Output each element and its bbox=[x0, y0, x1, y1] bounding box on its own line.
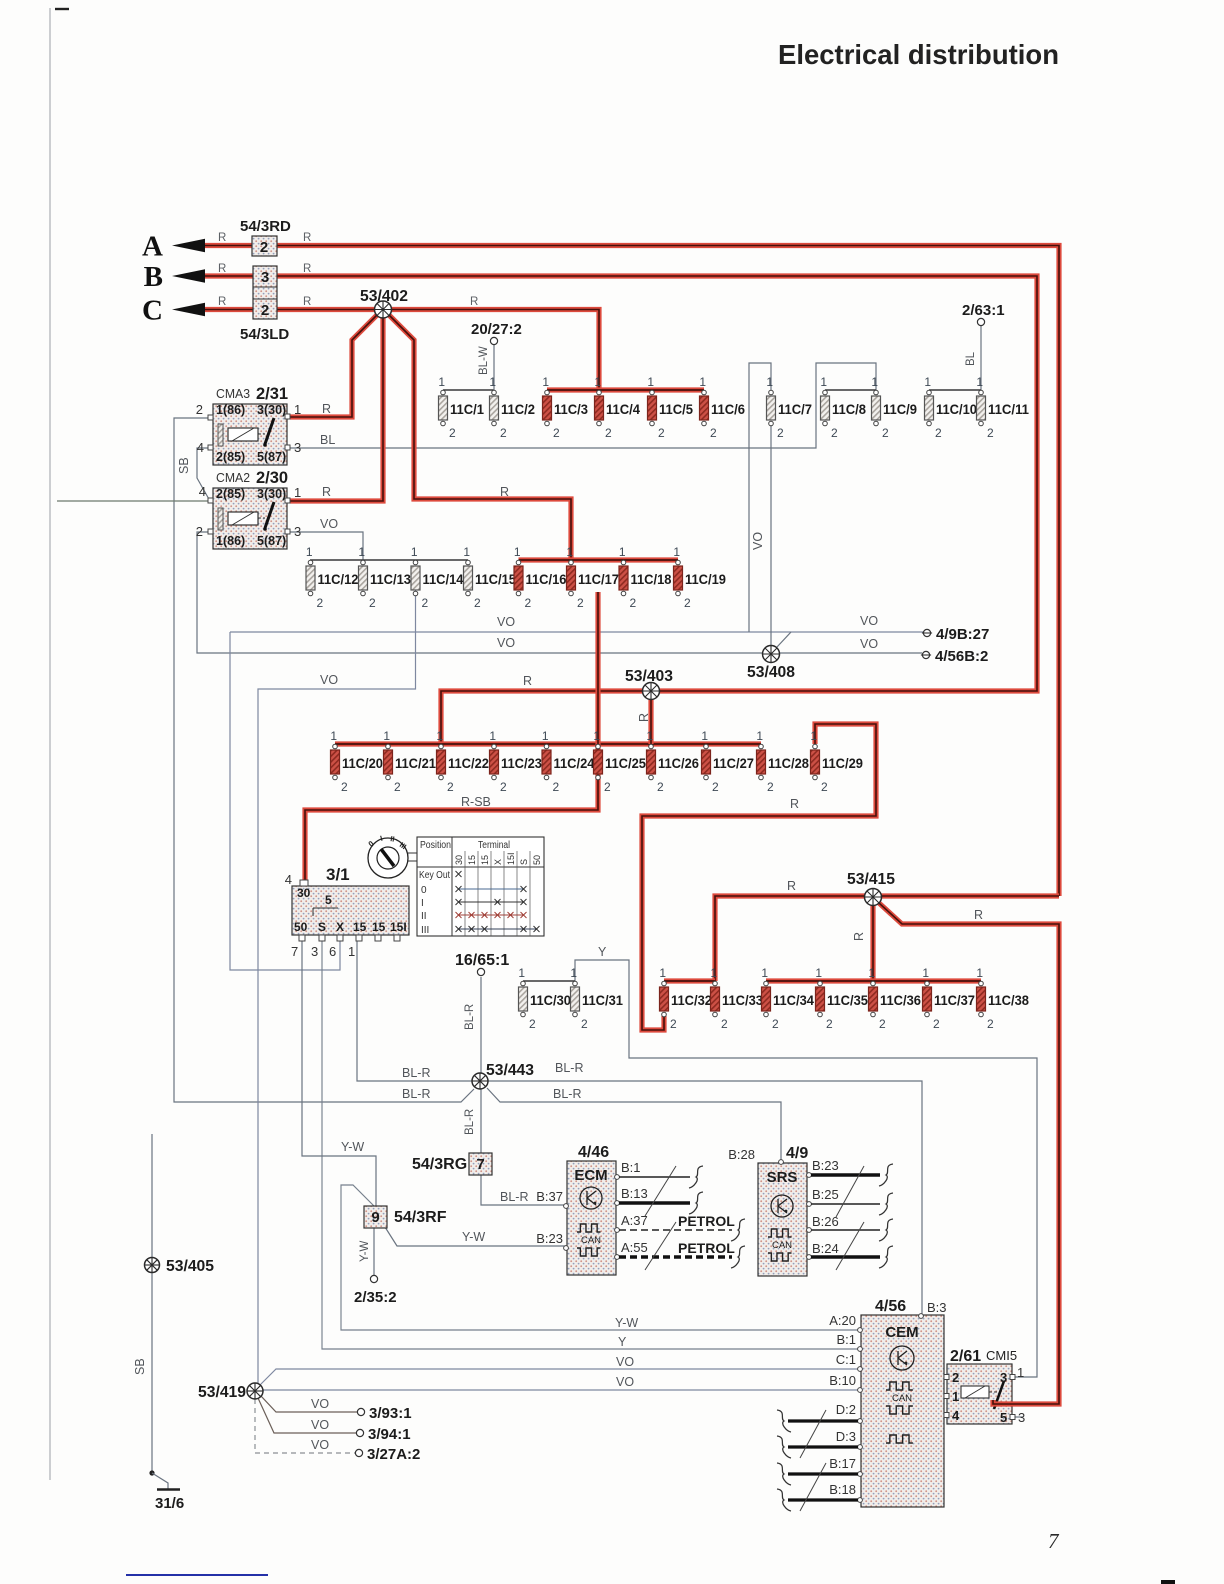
arrow C bbox=[142, 295, 205, 327]
svg-text:BL-R: BL-R bbox=[555, 1061, 583, 1075]
svg-text:2: 2 bbox=[553, 426, 560, 440]
wire bus top of fuses 11C/1-11C/2 with BL-W drop from 20/27:2 bbox=[443, 345, 494, 390]
svg-text:1: 1 bbox=[976, 966, 983, 980]
svg-text:1: 1 bbox=[710, 966, 717, 980]
R labels on wires A B C bbox=[218, 232, 478, 308]
fuse 11C/14 bbox=[411, 545, 464, 610]
svg-text:11C/37: 11C/37 bbox=[934, 993, 975, 1008]
fuse 11C/7 bbox=[766, 375, 812, 440]
svg-text:53/405: 53/405 bbox=[166, 1258, 214, 1275]
svg-text:I: I bbox=[421, 898, 424, 909]
svg-text:R: R bbox=[303, 296, 311, 308]
svg-text:1: 1 bbox=[976, 375, 983, 389]
wire BL-R from node 53/443 to SRS B:28 bbox=[487, 1088, 781, 1161]
svg-text:5(87): 5(87) bbox=[257, 450, 286, 464]
svg-text:1: 1 bbox=[761, 966, 768, 980]
svg-text:20/27:2: 20/27:2 bbox=[471, 321, 522, 338]
terminal 2/35:2 bbox=[354, 1241, 397, 1306]
svg-text:2: 2 bbox=[605, 426, 612, 440]
bottom-right crop dash bbox=[1161, 1580, 1175, 1584]
svg-text:VO: VO bbox=[616, 1375, 634, 1389]
svg-text:VO: VO bbox=[860, 614, 878, 628]
relay 2/30 CMA2 bbox=[196, 469, 301, 549]
CEM input wire B:18 bbox=[777, 1489, 858, 1511]
svg-text:11C/24: 11C/24 bbox=[554, 756, 595, 771]
svg-text:VO: VO bbox=[311, 1397, 329, 1411]
terminal 16/65:1 bbox=[455, 952, 509, 1030]
svg-text:B:10: B:10 bbox=[829, 1373, 856, 1388]
arrow B bbox=[144, 261, 205, 293]
svg-text:2: 2 bbox=[447, 780, 454, 794]
svg-text:4/9: 4/9 bbox=[786, 1145, 808, 1162]
svg-text:1: 1 bbox=[383, 729, 390, 743]
ECM wire pair slash bbox=[645, 1166, 676, 1216]
svg-text:D:2: D:2 bbox=[836, 1402, 856, 1417]
svg-text:11C/29: 11C/29 bbox=[822, 756, 863, 771]
svg-text:VO: VO bbox=[860, 637, 878, 651]
SRS pair slash 1 bbox=[836, 1166, 864, 1217]
svg-text:1: 1 bbox=[514, 545, 521, 559]
fuse 11C/2 bbox=[489, 375, 535, 440]
svg-text:53/443: 53/443 bbox=[486, 1062, 534, 1079]
SRS output wire B:23 bbox=[811, 1164, 893, 1186]
svg-text:2: 2 bbox=[474, 596, 481, 610]
svg-text:II: II bbox=[421, 911, 427, 922]
svg-text:R: R bbox=[470, 296, 478, 308]
wire BL-R: 16/65:1 down through node 53/443 and 54/3RG to ECM B:37 bbox=[481, 977, 566, 1205]
svg-text:1: 1 bbox=[294, 402, 301, 417]
svg-text:3/94:1: 3/94:1 bbox=[368, 1426, 411, 1443]
svg-text:1: 1 bbox=[673, 545, 680, 559]
fuse 11C/28 bbox=[756, 729, 809, 794]
terminal 4/9B:27 bbox=[922, 626, 989, 643]
svg-text:2/31: 2/31 bbox=[256, 385, 288, 403]
fuse 11C/25 bbox=[593, 729, 646, 794]
wire VO node 53/419 to CEM C:1 bbox=[260, 1369, 859, 1385]
svg-text:31/6: 31/6 bbox=[155, 1495, 184, 1512]
svg-text:R: R bbox=[218, 296, 226, 308]
wire bus top of fuses 11C/30-11C/31 bbox=[523, 980, 575, 982]
wire bus top of fuses 11C/12-11C/15 bbox=[310, 559, 468, 561]
wire VO node 53/419 to terminal 3/93:1 bbox=[261, 1396, 357, 1412]
fuse 11C/34 bbox=[761, 966, 814, 1031]
svg-text:1: 1 bbox=[952, 1389, 959, 1404]
svg-text:53/408: 53/408 bbox=[747, 664, 795, 681]
fuse 11C/17 bbox=[566, 545, 619, 610]
fuse 11C/12 bbox=[306, 545, 359, 610]
svg-text:1: 1 bbox=[619, 545, 626, 559]
bottom-left blue rule bbox=[126, 1574, 268, 1576]
svg-text:11C/4: 11C/4 bbox=[606, 402, 640, 417]
ECM output wire B:13 bbox=[619, 1192, 703, 1214]
svg-text:11C/23: 11C/23 bbox=[501, 756, 542, 771]
svg-text:11C/28: 11C/28 bbox=[768, 756, 809, 771]
ECM output wire B:1 bbox=[619, 1166, 703, 1188]
svg-text:2: 2 bbox=[581, 1017, 588, 1031]
svg-text:2: 2 bbox=[500, 780, 507, 794]
fuse 11C/8 bbox=[820, 375, 866, 440]
svg-text:1: 1 bbox=[411, 545, 418, 559]
ECM pin labels bbox=[536, 1160, 648, 1255]
fuse 11C/5 bbox=[647, 375, 693, 440]
svg-text:1: 1 bbox=[593, 729, 600, 743]
svg-text:11C/38: 11C/38 bbox=[988, 993, 1029, 1008]
svg-text:A:55: A:55 bbox=[621, 1240, 648, 1255]
fuse 11C/20 bbox=[330, 729, 383, 794]
svg-text:2: 2 bbox=[525, 596, 532, 610]
svg-text:Y-W: Y-W bbox=[462, 1230, 485, 1244]
wire R feed C: arrow C through node 53/402 to fuse row 11C/3-11C/6 bbox=[202, 310, 599, 391]
CEM pin labels bbox=[829, 1313, 856, 1497]
svg-text:11C/30: 11C/30 bbox=[530, 993, 571, 1008]
SRS output wire B:26 bbox=[811, 1219, 893, 1241]
fuse 11C/9 bbox=[871, 375, 917, 440]
svg-text:2: 2 bbox=[630, 596, 637, 610]
ECU ECM 4/46 bbox=[564, 1144, 620, 1275]
svg-text:VO: VO bbox=[311, 1418, 329, 1432]
svg-text:VO: VO bbox=[320, 673, 338, 687]
svg-text:1(86): 1(86) bbox=[216, 403, 245, 417]
svg-text:11C/34: 11C/34 bbox=[773, 993, 814, 1008]
ground 31/6 bbox=[149, 1470, 184, 1512]
wire VO dashed node 53/419 to terminal 3/27A:2 bbox=[255, 1399, 355, 1453]
fuse 11C/16 bbox=[514, 545, 567, 610]
svg-text:30: 30 bbox=[297, 886, 311, 900]
svg-text:3/93:1: 3/93:1 bbox=[369, 1405, 412, 1422]
svg-text:11C/31: 11C/31 bbox=[582, 993, 623, 1008]
svg-text:BL-R: BL-R bbox=[500, 1190, 528, 1204]
wire R bus top of fuses 11C/34-11C/38 bbox=[766, 978, 981, 983]
fuse 11C/36 bbox=[868, 966, 921, 1031]
fuse 11C/1 bbox=[438, 375, 484, 440]
svg-text:1: 1 bbox=[294, 485, 301, 500]
svg-text:R: R bbox=[790, 797, 799, 811]
svg-text:SB: SB bbox=[133, 1358, 147, 1375]
wire VO from relay 2/30 pin3 to fuse 11C/13 bbox=[290, 532, 363, 560]
svg-text:SB: SB bbox=[177, 457, 191, 474]
svg-text:11C/14: 11C/14 bbox=[423, 572, 464, 587]
svg-text:R: R bbox=[500, 485, 509, 499]
svg-text:5: 5 bbox=[325, 893, 332, 907]
connector 54/3RG (7) bbox=[412, 1153, 492, 1175]
ECU CEM 4/56 bbox=[858, 1298, 947, 1507]
svg-text:11C/9: 11C/9 bbox=[883, 402, 917, 417]
svg-text:2(85): 2(85) bbox=[216, 450, 245, 464]
svg-text:CMA3: CMA3 bbox=[216, 386, 250, 401]
svg-text:1: 1 bbox=[594, 375, 601, 389]
page number 7 bbox=[1048, 1529, 1060, 1553]
svg-text:1: 1 bbox=[306, 545, 313, 559]
terminal 3/94:1 bbox=[311, 1418, 411, 1443]
svg-text:1: 1 bbox=[542, 375, 549, 389]
fuse 11C/4 bbox=[594, 375, 640, 440]
relay 2/31 CMA3 bbox=[196, 385, 301, 465]
svg-text:53/403: 53/403 bbox=[625, 668, 673, 685]
svg-text:54/3RG: 54/3RG bbox=[412, 1156, 467, 1173]
SB label bottom bbox=[133, 1358, 147, 1375]
svg-text:2: 2 bbox=[767, 780, 774, 794]
svg-text:3: 3 bbox=[261, 269, 269, 286]
node 53/403 bbox=[523, 668, 673, 722]
svg-text:4: 4 bbox=[285, 872, 292, 887]
svg-text:1: 1 bbox=[436, 729, 443, 743]
svg-text:15: 15 bbox=[467, 855, 477, 865]
wire BL from terminal 2/63:1 to fuses 11C/10-11C/11 bbox=[929, 326, 981, 390]
svg-text:3(30): 3(30) bbox=[257, 403, 286, 417]
svg-text:CAN: CAN bbox=[892, 1393, 912, 1404]
CEM input wire B:17 bbox=[777, 1463, 858, 1485]
CEM input wire D:3 bbox=[777, 1436, 858, 1458]
title bbox=[778, 39, 1059, 70]
terminal 3/93:1 bbox=[311, 1397, 412, 1422]
svg-text:R: R bbox=[303, 232, 311, 244]
wire R feed A: arrow A to 53/415 line bbox=[202, 246, 1059, 897]
SRS output wire B:25 bbox=[811, 1193, 893, 1215]
node 53/415 bbox=[787, 871, 983, 941]
fuse 11C/10 bbox=[924, 375, 977, 440]
svg-text:2: 2 bbox=[821, 780, 828, 794]
wire VO horizontal to 4/9B:27 with branch to ignition pin6 bbox=[230, 632, 923, 970]
svg-text:11C/6: 11C/6 bbox=[711, 402, 745, 417]
svg-text:11C/27: 11C/27 bbox=[713, 756, 754, 771]
node 53/419 bbox=[198, 1383, 263, 1401]
svg-text:B:1: B:1 bbox=[621, 1160, 641, 1175]
svg-text:2: 2 bbox=[933, 1017, 940, 1031]
svg-text:R: R bbox=[303, 263, 311, 275]
svg-text:Y: Y bbox=[598, 945, 607, 959]
svg-text:1: 1 bbox=[566, 545, 573, 559]
svg-text:11C/8: 11C/8 bbox=[832, 402, 866, 417]
svg-text:2: 2 bbox=[529, 1017, 536, 1031]
svg-text:5(87): 5(87) bbox=[257, 534, 286, 548]
svg-text:Y-W: Y-W bbox=[615, 1316, 638, 1330]
svg-text:CMA2: CMA2 bbox=[216, 470, 250, 485]
fuse 11C/22 bbox=[436, 729, 489, 794]
svg-text:15: 15 bbox=[480, 855, 490, 865]
svg-text:7: 7 bbox=[291, 944, 298, 959]
wire VO node 53/419 to terminal 3/94:1 bbox=[258, 1398, 356, 1433]
wire SB from relay 2/30 pin4 to left edge bbox=[57, 500, 210, 502]
svg-text:11C/7: 11C/7 bbox=[778, 402, 812, 417]
VO labels bbox=[320, 532, 878, 687]
fuse 11C/11 bbox=[976, 375, 1029, 440]
svg-text:0: 0 bbox=[421, 885, 427, 896]
svg-text:2: 2 bbox=[987, 1017, 994, 1031]
wire VO junction 11C/7 pin1 loop bbox=[749, 363, 771, 632]
svg-text:X: X bbox=[336, 920, 344, 934]
svg-text:BL: BL bbox=[965, 351, 977, 366]
svg-text:1: 1 bbox=[348, 944, 355, 959]
svg-text:2: 2 bbox=[879, 1017, 886, 1031]
svg-text:2: 2 bbox=[657, 780, 664, 794]
svg-text:BL-R: BL-R bbox=[402, 1087, 430, 1101]
svg-text:B:17: B:17 bbox=[829, 1456, 856, 1471]
svg-text:1: 1 bbox=[518, 966, 525, 980]
svg-text:BL-R: BL-R bbox=[464, 1109, 476, 1135]
svg-text:Y: Y bbox=[618, 1335, 627, 1349]
svg-text:2: 2 bbox=[369, 596, 376, 610]
svg-text:7: 7 bbox=[1048, 1529, 1060, 1553]
fuse 11C/27 bbox=[701, 729, 754, 794]
svg-text:PETROL: PETROL bbox=[678, 1213, 735, 1229]
svg-text:11C/21: 11C/21 bbox=[395, 756, 436, 771]
svg-text:2: 2 bbox=[935, 426, 942, 440]
svg-text:2/30: 2/30 bbox=[256, 469, 288, 487]
svg-text:30: 30 bbox=[454, 855, 464, 865]
fuse 11C/30 bbox=[518, 966, 571, 1031]
svg-text:3: 3 bbox=[1018, 1410, 1025, 1425]
svg-text:1: 1 bbox=[699, 375, 706, 389]
svg-text:4/56: 4/56 bbox=[875, 1298, 906, 1315]
svg-text:B:24: B:24 bbox=[812, 1241, 839, 1256]
svg-text:2: 2 bbox=[553, 780, 560, 794]
svg-text:11C/35: 11C/35 bbox=[827, 993, 868, 1008]
wire R node 53/415 drop to fuse 11C/36 bbox=[870, 900, 875, 981]
fuse 11C/23 bbox=[489, 729, 542, 794]
svg-text:R: R bbox=[852, 932, 866, 941]
terminal 20/27:2 with BL-W bbox=[471, 321, 522, 375]
svg-text:C: C bbox=[142, 295, 163, 327]
svg-text:1: 1 bbox=[820, 375, 827, 389]
ECM output wire A:55 PETROL bbox=[619, 1240, 745, 1268]
wire R bus top of fuses 11C/20-11C/28 bbox=[335, 741, 761, 746]
svg-text:1: 1 bbox=[871, 375, 878, 389]
R-SB label bbox=[461, 795, 799, 811]
svg-text:1: 1 bbox=[489, 375, 496, 389]
svg-text:BL-R: BL-R bbox=[402, 1066, 430, 1080]
CEM D pair slash bbox=[800, 1410, 826, 1458]
ignition switch 3/1 bbox=[285, 865, 409, 959]
fuse 11C/15 bbox=[463, 545, 516, 610]
svg-text:PETROL: PETROL bbox=[678, 1240, 735, 1256]
svg-text:15I: 15I bbox=[390, 920, 407, 934]
svg-text:2: 2 bbox=[710, 426, 717, 440]
svg-text:11C/20: 11C/20 bbox=[342, 756, 383, 771]
svg-text:CMI5: CMI5 bbox=[986, 1348, 1017, 1363]
svg-text:BL: BL bbox=[320, 433, 335, 447]
wire SB from relay 2/31 pin2 left and down to BL-R junction line bbox=[174, 418, 474, 1102]
wire diagonal from VO line into node 53/408 bbox=[777, 632, 791, 647]
connector 54/3LD (3/2) on wires B and C bbox=[240, 266, 289, 343]
Y label at 11C/31 bbox=[598, 945, 607, 959]
wire BL from relay 2/31 pin3 to fuses 11C/8 and 11C/9 bbox=[290, 363, 876, 448]
svg-text:2: 2 bbox=[772, 1017, 779, 1031]
node 53/408 bbox=[747, 646, 795, 682]
svg-text:1: 1 bbox=[924, 375, 931, 389]
Y-W labels bbox=[341, 1140, 528, 1244]
svg-text:2: 2 bbox=[670, 1017, 677, 1031]
CEM B pair slash bbox=[800, 1463, 826, 1511]
svg-text:R: R bbox=[322, 402, 331, 416]
svg-text:1: 1 bbox=[659, 966, 666, 980]
svg-text:VO: VO bbox=[497, 615, 515, 629]
node 53/405 bbox=[145, 1258, 215, 1276]
svg-text:11C/10: 11C/10 bbox=[936, 402, 977, 417]
svg-text:11C/33: 11C/33 bbox=[722, 993, 763, 1008]
svg-text:11C/25: 11C/25 bbox=[605, 756, 646, 771]
fuse 11C/35 bbox=[815, 966, 868, 1031]
svg-text:B:37: B:37 bbox=[536, 1189, 563, 1204]
svg-text:R: R bbox=[218, 263, 226, 275]
svg-text:2: 2 bbox=[196, 524, 203, 539]
svg-text:2: 2 bbox=[826, 1017, 833, 1031]
svg-text:2/61: 2/61 bbox=[950, 1348, 981, 1365]
wire color labels near relays bbox=[177, 402, 509, 531]
wire Y-W from 54/3RF to ECM B:23 bbox=[385, 1227, 566, 1246]
CEM input wire D:2 bbox=[777, 1410, 858, 1432]
svg-text:D:3: D:3 bbox=[836, 1429, 856, 1444]
svg-text:SRS: SRS bbox=[767, 1169, 798, 1186]
svg-text:CEM: CEM bbox=[885, 1324, 918, 1341]
svg-text:B:25: B:25 bbox=[812, 1187, 839, 1202]
svg-text:X: X bbox=[493, 859, 503, 865]
svg-text:4: 4 bbox=[197, 440, 204, 455]
svg-text:2: 2 bbox=[577, 596, 584, 610]
fuse 11C/3 bbox=[542, 375, 588, 440]
wire VO node 53/419 to CEM B:10 bbox=[255, 1389, 859, 1391]
fuse 11C/19 bbox=[673, 545, 726, 610]
ignition key symbol bbox=[367, 834, 417, 878]
svg-text:B:23: B:23 bbox=[812, 1158, 839, 1173]
svg-text:2: 2 bbox=[422, 596, 429, 610]
svg-text:R: R bbox=[974, 908, 983, 922]
svg-text:50: 50 bbox=[294, 920, 308, 934]
svg-text:BL-R: BL-R bbox=[553, 1087, 581, 1101]
connector 54/3RF (9) bbox=[364, 1206, 447, 1228]
fuse 11C/38 bbox=[976, 966, 1029, 1031]
svg-text:VO: VO bbox=[497, 636, 515, 650]
svg-text:1: 1 bbox=[646, 729, 653, 743]
svg-text:11C/15: 11C/15 bbox=[475, 572, 516, 587]
svg-text:4/9B:27: 4/9B:27 bbox=[936, 626, 989, 643]
svg-text:11C/17: 11C/17 bbox=[578, 572, 619, 587]
svg-text:3: 3 bbox=[294, 524, 301, 539]
svg-text:R: R bbox=[218, 232, 226, 244]
svg-text:B:1: B:1 bbox=[836, 1332, 856, 1347]
wire R node 53/415 bus to wire A drop bbox=[715, 896, 1059, 981]
wire VO from fuse 11C/14 down-left-down to node 53/419 bbox=[258, 590, 416, 1391]
wire Y from ignition 3/1 pin3 to CEM B:1 bbox=[322, 941, 859, 1349]
svg-text:1: 1 bbox=[358, 545, 365, 559]
svg-text:4/46: 4/46 bbox=[578, 1144, 609, 1161]
svg-text:11C/26: 11C/26 bbox=[658, 756, 699, 771]
svg-text:2: 2 bbox=[196, 402, 203, 417]
svg-text:Position: Position bbox=[420, 840, 451, 851]
svg-text:7: 7 bbox=[476, 1156, 484, 1173]
svg-text:1: 1 bbox=[542, 729, 549, 743]
svg-text:B: B bbox=[144, 261, 163, 293]
ECM petrol pair slash bbox=[645, 1222, 676, 1270]
fuse 11C/24 bbox=[542, 729, 595, 794]
svg-text:2/63:1: 2/63:1 bbox=[962, 302, 1005, 319]
svg-text:CAN: CAN bbox=[581, 1235, 601, 1246]
svg-text:9: 9 bbox=[371, 1209, 379, 1226]
svg-text:R: R bbox=[787, 879, 796, 893]
svg-text:3/1: 3/1 bbox=[326, 865, 350, 884]
svg-text:2: 2 bbox=[684, 596, 691, 610]
svg-text:B:13: B:13 bbox=[621, 1186, 648, 1201]
svg-text:11C/12: 11C/12 bbox=[318, 572, 359, 587]
svg-text:3: 3 bbox=[1000, 1370, 1007, 1385]
wire stub relay 2/61 pin5 bbox=[1014, 1416, 1023, 1418]
svg-text:53/415: 53/415 bbox=[847, 871, 895, 888]
svg-text:3(30): 3(30) bbox=[257, 487, 286, 501]
svg-text:11C/3: 11C/3 bbox=[554, 402, 588, 417]
svg-text:11C/18: 11C/18 bbox=[631, 572, 672, 587]
wire R-SB from fuse 11C/25 to ignition 3/1 pin4 bbox=[305, 592, 598, 884]
svg-text:2: 2 bbox=[831, 426, 838, 440]
fuse 11C/18 bbox=[619, 545, 672, 610]
